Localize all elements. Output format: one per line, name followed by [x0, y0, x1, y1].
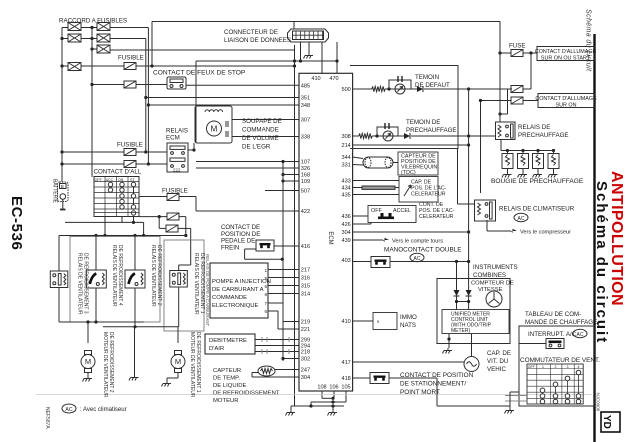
wire ign ON column drop: [121, 217, 123, 223]
wire AC relay bottom to compressor: [486, 220, 488, 231]
accelerator pedal switch box OFF ACCEL: [368, 206, 416, 223]
wire diode branch 1: [456, 262, 458, 291]
fan relay 3 RELAIS DE VENTILATEUR DE REFROIDISSEMENT 2: [125, 270, 145, 288]
svg-text:SUR ON OU START: SUR ON OU START: [541, 56, 591, 62]
wire debitmetre to ECM pin 294: [255, 345, 299, 347]
ground link row3: [295, 405, 345, 407]
data link connector: [288, 29, 329, 42]
coolant temperature sensor: [258, 366, 275, 376]
svg-text:485: 485: [301, 84, 310, 90]
wire ign out right 1: [139, 196, 167, 198]
MIL lamp bracket: [389, 80, 411, 89]
box CONTACT D ALLUMAGE SUR ON OU START: [537, 47, 594, 61]
wire stoplamp switch output to ECM pin 485: [186, 84, 299, 86]
wire fan switch feed 1: [505, 395, 527, 397]
wire x531 riser: [530, 53, 532, 89]
wire pump to ECM pin 221: [268, 310, 278, 312]
wire x480 riser to AC relay: [480, 101, 482, 194]
speedometer: [486, 291, 502, 307]
fusible link F-B2: [97, 34, 110, 42]
svg-text:DE REFROIDISSEMENT 1: DE REFROIDISSEMENT 1: [195, 332, 201, 393]
junction row3: [90, 47, 93, 50]
fan bottom rail 1: [59, 321, 144, 323]
wire DLC ground pin: [308, 42, 310, 53]
wire ign table feed: [91, 176, 93, 179]
heater control box: [519, 326, 594, 406]
fuse F3: [124, 149, 136, 156]
AC oval interrupt: [573, 329, 587, 338]
ground motor1: [83, 376, 93, 382]
svg-text:8: 8: [265, 292, 268, 297]
svg-text:EC-536: EC-536: [8, 196, 25, 250]
warning lamp TEMOIN DE DEFAUT: [395, 84, 405, 94]
wire ECM 426 stub: [353, 223, 371, 225]
svg-text:YD: YD: [601, 415, 612, 429]
ground ECM right: [328, 410, 338, 416]
svg-text:DE REFROIDISSEMENT 2: DE REFROIDISSEMENT 2: [156, 245, 162, 306]
wire pump to ECM pin 315: [268, 285, 299, 287]
unified meter control unit box: [442, 310, 509, 334]
wire to glow lamp: [372, 135, 404, 137]
wire fuse F9 in from lamp circuit: [469, 88, 511, 90]
fan relay 4 RELAIS DE VENTILATEUR DE REFROIDISSEMENT 1: [170, 271, 188, 288]
svg-text:CAPTEUR: CAPTEUR: [213, 368, 241, 374]
svg-text:CONTACT D'ALL: CONTACT D'ALL: [94, 169, 142, 176]
wire heater box ground: [509, 406, 511, 408]
wire TDC to ECM pin 344: [353, 157, 363, 159]
potentiometer arrow: [404, 185, 411, 196]
wire fan relay3 top: [134, 236, 136, 271]
arrow vers compresseur: [511, 229, 517, 233]
wire ECM 433 to accel sensor: [353, 180, 399, 182]
svg-text:LIAISON DE DONNEES: LIAISON DE DONNEES: [224, 37, 291, 44]
wire debitmetre to ECM pin 218: [255, 351, 299, 353]
wire motor1 ground: [87, 373, 89, 377]
ground DLC: [304, 53, 314, 59]
wire pump to ECM pin 217: [268, 269, 299, 271]
svg-text:BOUGIE DE PRECHAUFFAGE: BOUGIE DE PRECHAUFFAGE: [491, 178, 584, 185]
svg-text:168: 168: [301, 173, 310, 179]
wire fuse F5 out: [179, 196, 196, 198]
svg-text:304: 304: [341, 230, 350, 236]
wire ECM 417 to speed sensor: [353, 361, 464, 363]
fuse F2: [124, 81, 136, 88]
svg-text:(TDC): (TDC): [401, 170, 416, 176]
wire ECM pin 106 down: [333, 391, 335, 398]
wire DLC pin to ECM top: [321, 42, 323, 74]
wire junction riser x468: [468, 89, 470, 262]
diode cluster 2: [466, 290, 472, 296]
svg-text:VEHIC: VEHIC: [487, 366, 506, 373]
wire battery negative: [62, 199, 64, 209]
svg-text:436: 436: [341, 214, 350, 220]
svg-text:OFF: OFF: [528, 365, 535, 369]
fuse fan F7: [166, 225, 178, 232]
svg-text:ELECTRONIQUE: ELECTRONIQUE: [212, 303, 259, 309]
svg-text:ON: ON: [118, 178, 124, 182]
svg-text:ECM: ECM: [327, 231, 333, 244]
top rail y21.5: [152, 21, 500, 23]
wire ground drop left: [290, 406, 292, 410]
wire ECM 410 to IMMO: [353, 320, 373, 322]
wire fan relay1 top: [58, 236, 60, 272]
svg-text:5: 5: [265, 276, 268, 281]
svg-text:315: 315: [301, 284, 310, 290]
svg-text:Schéma du circuit: Schéma du circuit: [585, 9, 592, 72]
svg-text:COMBINES: COMBINES: [473, 272, 506, 279]
svg-text:AC: AC: [577, 332, 584, 338]
svg-text:3: 3: [567, 365, 569, 369]
wire ECM pin 108 down: [321, 391, 323, 398]
wire fuse F1 out: [136, 65, 295, 67]
svg-text:FREIN: FREIN: [221, 244, 239, 251]
svg-text:500: 500: [341, 87, 350, 93]
junction row1: [90, 26, 93, 29]
svg-text:COMMUTATEUR DE VENT.: COMMUTATEUR DE VENT.: [520, 357, 600, 364]
wire fuse F2 to stoplamp switch: [136, 84, 167, 86]
svg-text:MOTEUR: MOTEUR: [213, 398, 239, 404]
svg-text:433: 433: [341, 179, 350, 185]
ground glow plug 2: [518, 172, 528, 178]
svg-text:INTERRUPT. A/C: INTERRUPT. A/C: [528, 331, 577, 338]
vehicle speed sensor: [464, 357, 479, 372]
fan fuse riser: [158, 217, 160, 229]
wire temp sensor to ECM pin 304: [252, 372, 258, 374]
svg-text:ANTIPOLLUTION: ANTIPOLLUTION: [608, 171, 625, 306]
ground cluster: [443, 348, 453, 354]
glow plug 3: [533, 151, 544, 173]
wire pump to ECM pin 219: [268, 302, 283, 304]
diode MIL: [417, 86, 423, 92]
svg-text:ACC: ACC: [106, 178, 114, 182]
wire fuse F8 out: [523, 52, 537, 54]
svg-text:CELERATEUR: CELERATEUR: [419, 214, 454, 220]
svg-text:FUSIBLE: FUSIBLE: [117, 142, 143, 149]
fan section top bus: [59, 235, 186, 237]
wire ECM 418 to park switch: [353, 377, 370, 379]
svg-text:Vers le compte tours: Vers le compte tours: [392, 239, 443, 245]
svg-text:RELAIS DE VENTILATEUR: RELAIS DE VENTILATEUR: [150, 245, 156, 307]
cluster box: [437, 279, 510, 344]
svg-text:MOTEUR DE VENTILATEUR: MOTEUR DE VENTILATEUR: [102, 332, 108, 398]
wire mid ground drop: [134, 327, 136, 375]
wire motor2 ground: [177, 373, 179, 379]
wire row4 fusible link: [62, 65, 68, 67]
wire fuse F6 out to fan bus: [179, 216, 186, 218]
glow plug 2: [518, 151, 529, 173]
wire ign col ACC down: [104, 217, 106, 236]
svg-text:338: 338: [301, 135, 310, 141]
box CONTACT D ALLUMAGE SUR ON: [538, 94, 594, 108]
scan fold line: [36, 394, 592, 396]
wire diode branch 2: [468, 262, 470, 291]
wire switch to AC bus: [390, 261, 469, 263]
wire speed sensor to cluster: [471, 334, 473, 357]
svg-text:326: 326: [301, 166, 310, 172]
fusible link F-B3: [97, 45, 110, 53]
warning lamp TEMOIN DE PRECHAUFFAGE: [383, 131, 393, 141]
svg-text:108: 108: [317, 385, 326, 391]
wire fan relay2 bottom: [95, 288, 97, 322]
wire ECM pin 500 run: [353, 88, 372, 90]
glow plug 4: [548, 151, 559, 173]
wire fan switch feed 2: [505, 400, 527, 402]
glow lamp bracket: [377, 127, 398, 136]
wire ECM 304b stub: [353, 231, 469, 233]
wire bus x283 vertical: [282, 162, 284, 362]
wire relay prechauffage bottom: [500, 140, 502, 151]
svg-text:308: 308: [341, 134, 350, 140]
svg-text:MOTEUR DE VENTILATEUR: MOTEUR DE VENTILATEUR: [189, 332, 195, 398]
wire motor2 feed: [177, 327, 179, 343]
wire top rail to x500 riser: [499, 22, 501, 122]
svg-text:410: 410: [341, 319, 350, 325]
wire ECM pin 214 run: [353, 144, 469, 146]
svg-text:109: 109: [301, 179, 310, 185]
wire resistor to lamp: [385, 88, 417, 90]
fuse ignition F8: [511, 50, 523, 57]
relay ECM: [167, 143, 188, 173]
svg-text:OFF: OFF: [95, 178, 103, 182]
svg-text:CONTACT D'ALLUMAGE: CONTACT D'ALLUMAGE: [535, 49, 597, 55]
wire fuse F8 in: [500, 52, 511, 54]
diode glow: [404, 133, 410, 139]
svg-text:DE REFROIDISSEMENT 2: DE REFROIDISSEMENT 2: [108, 332, 114, 393]
wire cluster edge drop to AC relay: [457, 149, 459, 205]
svg-text:M: M: [85, 357, 91, 366]
svg-text:D'AIR: D'AIR: [209, 346, 224, 352]
ground heater: [505, 408, 515, 414]
wire pedal switch to ECM pin 416: [274, 245, 299, 247]
fan switch table COMMUTATEUR DE VENT: [527, 364, 583, 404]
shielded cable to accel sensor: [362, 186, 395, 189]
junction row4: [60, 64, 63, 67]
svg-text:MANDE DE CHAUFFAGE: MANDE DE CHAUFFAGE: [525, 319, 597, 326]
riser row1 x148.4: [147, 28, 149, 165]
svg-text:331: 331: [341, 163, 350, 169]
svg-text:304: 304: [301, 375, 310, 381]
instrument cluster upper box: [350, 66, 458, 149]
relay RELAIS DE CLIMATISEUR: [475, 200, 496, 221]
glow plug bus: [501, 150, 554, 152]
svg-text:439: 439: [341, 238, 350, 244]
fuse F10: [511, 97, 523, 104]
svg-text:221: 221: [301, 327, 310, 333]
fan relay 2 RELAIS DE VENTILATEUR DE REFROIDISSEMENT 4: [86, 270, 106, 288]
wire ECM pin 308 run: [353, 135, 359, 137]
svg-text:435: 435: [341, 193, 350, 199]
ground ECM left: [286, 410, 296, 416]
wire ECM pin 302 from bus: [283, 358, 299, 360]
wire debitmetre to ECM pin 299: [255, 339, 299, 341]
wire to ECM pin 348: [148, 104, 299, 106]
wire DLC pin down-left: [300, 42, 302, 61]
svg-text:POINT MORT: POINT MORT: [400, 389, 440, 396]
ground glow plug 3: [533, 172, 543, 178]
svg-text:FUSE: FUSE: [509, 43, 526, 50]
svg-text:214: 214: [341, 143, 350, 149]
svg-text:CONTACT DE FEUX DE STOP: CONTACT DE FEUX DE STOP: [153, 70, 246, 77]
svg-text:RELAIS DE CLIMATISEUR: RELAIS DE CLIMATISEUR: [499, 206, 575, 213]
wire y222 run: [65, 221, 144, 223]
top rail corner x152: [151, 22, 153, 67]
wire ECM pin 105 down: [345, 391, 347, 402]
fuse F5: [167, 194, 179, 201]
wire AC switch left: [519, 343, 546, 345]
svg-text:417: 417: [341, 360, 350, 366]
wire lamp out to junction: [424, 88, 512, 90]
fuse F9: [511, 86, 523, 93]
wire park switch ground route: [436, 378, 438, 406]
svg-text:DE TEMP.: DE TEMP.: [213, 376, 240, 382]
svg-text:RELAIS DE: RELAIS DE: [518, 124, 550, 131]
svg-text:314: 314: [301, 292, 310, 298]
svg-text:403: 403: [341, 258, 350, 264]
svg-text:CAP. DE: CAP. DE: [487, 350, 511, 357]
ground motor2: [162, 381, 172, 387]
svg-text:422: 422: [301, 209, 310, 215]
fusible link F-A3: [68, 63, 81, 71]
svg-text:DE REFROIDISSEMENT: DE REFROIDISSEMENT: [213, 391, 280, 397]
svg-text:FUSIBLE: FUSIBLE: [118, 55, 144, 62]
stop lamp switch: [167, 77, 186, 89]
svg-text:RELAIS DE VENTILATEUR: RELAIS DE VENTILATEUR: [77, 253, 83, 315]
wire ECM 439 tachometer: [353, 239, 383, 241]
wire fan relay3 bottom: [134, 288, 136, 327]
fan relay 1 RELAIS DE VENTILATEUR DE REFROIDISSEMENT 3: [50, 271, 68, 288]
svg-text:307: 307: [301, 118, 310, 124]
glow plug 1: [502, 151, 513, 173]
fan outer box: [70, 237, 160, 323]
box label CAPTEUR DE POSITION DE VILEBREQUIN TDC: [398, 152, 438, 175]
svg-text:METER): METER): [451, 328, 471, 334]
fusible link F-B1: [97, 23, 110, 31]
fuse F6: [167, 213, 179, 220]
svg-text:ACCEL: ACCEL: [393, 208, 411, 214]
wire ECM pin 109: [283, 180, 299, 182]
svg-text:COMMANDE: COMMANDE: [212, 295, 247, 301]
wire pump to ECM pin 316: [268, 277, 299, 279]
svg-text:COMMANDE: COMMANDE: [242, 127, 279, 134]
svg-text:416: 416: [301, 244, 310, 250]
wire fan relay4 bottom: [178, 287, 180, 327]
svg-text:344: 344: [341, 155, 350, 161]
svg-text:219: 219: [301, 320, 310, 326]
svg-text:NEF587A: NEF587A: [44, 407, 50, 429]
diode cluster 1: [454, 290, 460, 296]
svg-text:TEMOIN: TEMOIN: [415, 74, 439, 81]
svg-text:302: 302: [301, 357, 310, 363]
svg-text:410: 410: [311, 76, 320, 82]
svg-text:POMPE A INJECTION: POMPE A INJECTION: [212, 279, 271, 285]
wire fuse F9 out: [523, 88, 531, 90]
wire fuse F3 in: [62, 151, 124, 153]
svg-text:CELERATEUR: CELERATEUR: [411, 192, 446, 198]
wire ECM 436 to pedal switch: [353, 215, 368, 217]
svg-text:AC: AC: [518, 216, 525, 222]
svg-text:B: B: [61, 184, 64, 189]
wire fuse F3 out to relay ECM: [136, 151, 167, 153]
svg-text:DE LIQUIDE: DE LIQUIDE: [213, 383, 246, 389]
wire ECM 403 to switch: [353, 261, 371, 263]
svg-text:351: 351: [301, 96, 310, 102]
resistor glow lamp: [359, 133, 372, 138]
wire TDC to ECM pin 331: [353, 164, 363, 167]
fan section feed fuse wire: [159, 227, 166, 229]
wire ECM pin 168: [283, 174, 299, 176]
svg-text:M: M: [175, 357, 181, 366]
wire bus B vertical x92: [91, 28, 93, 178]
svg-text:: Avec climatiseur: : Avec climatiseur: [80, 407, 127, 413]
fuse F4: [124, 161, 136, 168]
wire x337 riser to ECM top pin 470: [336, 42, 338, 74]
right sidebar divider line: [593, 34, 595, 442]
legend AC oval: [62, 404, 76, 413]
left sidebar label EC-536: [8, 196, 25, 250]
wire fuse F2 in: [92, 84, 124, 86]
svg-text:RELAIS: RELAIS: [166, 128, 188, 135]
svg-text:MANOCONTACT DOUBLE: MANOCONTACT DOUBLE: [384, 247, 462, 254]
svg-text:470: 470: [329, 76, 338, 82]
wire row4 link to fuse: [81, 65, 124, 67]
svg-text:ST: ST: [130, 178, 135, 182]
relay RELAIS DE PRECHAUFFAGE: [496, 122, 516, 140]
svg-text:AC: AC: [414, 256, 421, 262]
wire ign out right 2: [139, 216, 167, 218]
fusible link F-A2: [68, 34, 81, 42]
wire ECM pin 107: [196, 161, 299, 163]
dual pressure switch: [371, 257, 390, 268]
wire meter box ground: [448, 334, 450, 349]
wire ECM 435 to accel sensor: [353, 194, 399, 196]
svg-text:INSTRUMENTS: INSTRUMENTS: [473, 264, 518, 271]
wire EGR to ECM pin 338: [232, 136, 299, 138]
wire fan relay2 top: [95, 236, 97, 271]
svg-text:COMPTEUR DE: COMPTEUR DE: [471, 281, 514, 287]
ignition switch table CONTACT D ALL: [94, 177, 139, 217]
wire row2: [62, 38, 68, 40]
svg-text:DEBITMETRE: DEBITMETRE: [209, 338, 247, 344]
EGR solenoid valve SOUPAPE: [195, 106, 232, 143]
wire battery bus vertical x62: [61, 28, 63, 183]
svg-text:1: 1: [265, 268, 268, 273]
svg-text:RELAIS DE VENTILATEUR: RELAIS DE VENTILATEUR: [111, 245, 117, 307]
AC oval relay: [514, 213, 528, 222]
svg-text:DE REFROIDISSEMENT 4: DE REFROIDISSEMENT 4: [117, 245, 123, 306]
resistor lamp MIL: [372, 86, 385, 91]
svg-text:316: 316: [301, 276, 310, 282]
wire row1: [62, 27, 68, 29]
fan motor 2 MOTEUR DE VENTILATEUR DE REFROIDISSEMENT 1: [171, 351, 185, 373]
svg-text:BATTERIE: BATTERIE: [52, 179, 58, 204]
wire ECM pin 507: [265, 190, 299, 192]
wire row3 to harness: [92, 48, 97, 50]
wire relay prechauffage top: [499, 114, 501, 122]
ground glow plug 4: [548, 172, 558, 178]
wire to ECM pin 351: [146, 97, 299, 99]
wire ECM pin 422 feed: [196, 210, 299, 212]
svg-text:CONNECTEUR DE: CONNECTEUR DE: [224, 29, 278, 36]
park neutral position switch: [370, 373, 389, 384]
svg-text:PRECHAUFFAGE: PRECHAUFFAGE: [406, 127, 457, 134]
wire fuse F10 out: [523, 100, 538, 102]
air flow meter box DEBITMETRE D AIR: [205, 334, 255, 354]
svg-text:434: 434: [341, 186, 350, 192]
svg-text:6: 6: [265, 309, 268, 314]
svg-text:NATS: NATS: [400, 322, 416, 329]
svg-text:AC: AC: [65, 407, 72, 413]
wire diodes into meter box: [456, 296, 458, 310]
